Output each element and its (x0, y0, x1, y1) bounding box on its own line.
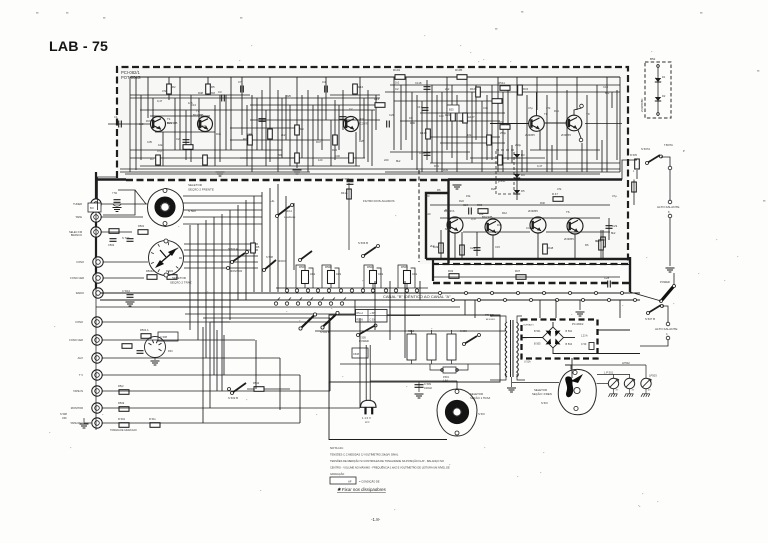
wire lamp drop2 (629, 375, 631, 379)
wire (198, 98, 200, 130)
lamp ground (641, 394, 650, 397)
switch S502B bottom (232, 383, 246, 393)
potentiometer R506 (404, 271, 411, 284)
resistor R49 emitter (439, 243, 444, 253)
pins row main (285, 289, 288, 292)
svg-text:S 504 A: S 504 A (283, 209, 292, 213)
wire (277, 90, 279, 172)
wire (536, 77, 538, 110)
scan tint lower right box (419, 180, 628, 264)
wire lamp (613, 389, 615, 394)
svg-text:POT-004S: POT-004S (121, 75, 141, 80)
wire (330, 120, 332, 166)
wire (230, 77, 232, 150)
wire (511, 145, 513, 163)
wire (325, 77, 327, 120)
pot leads (330, 284, 332, 289)
wire selector to lamp (597, 383, 609, 385)
capacitor C509 (415, 385, 424, 388)
wire bundle (213, 217, 215, 375)
wire (441, 92, 443, 172)
thick bus stub (447, 180, 449, 264)
selector S502 center (574, 387, 580, 393)
capacitor C23 (474, 248, 481, 251)
svg-text:R 504: R 504 (118, 417, 125, 421)
wire lamp (629, 389, 631, 394)
svg-text:10k: 10k (479, 212, 484, 216)
wire top corner (97, 176, 118, 178)
svg-text:2k2: 2k2 (445, 87, 450, 91)
resistor R14 (375, 103, 385, 108)
wire gnd canal (579, 300, 581, 310)
svg-text:R23: R23 (332, 148, 337, 152)
svg-text:C23: C23 (389, 113, 394, 117)
wire bl vert (419, 281, 421, 300)
jack RADIO (93, 288, 103, 298)
svg-text:47k: 47k (546, 106, 551, 110)
wire (334, 100, 336, 160)
wire bundle (197, 224, 199, 340)
svg-text:Lóudness: Lóudness (284, 215, 296, 219)
capacitor C501 (127, 239, 134, 242)
svg-text:220: 220 (425, 194, 430, 198)
wire (546, 231, 610, 233)
jack TAPE IN (92, 386, 102, 396)
jack FONO (93, 257, 103, 267)
wire (619, 77, 621, 172)
wire jack lead (102, 407, 360, 409)
wire out2 (636, 170, 638, 179)
svg-text:2N3055: 2N3055 (525, 133, 535, 137)
resistor R44 emitter (460, 245, 465, 255)
wire bundle (245, 200, 247, 300)
svg-text:R6: R6 (437, 188, 441, 192)
selector S500B tabs (164, 239, 168, 243)
jack AUX (92, 353, 102, 363)
power box outline (329, 315, 500, 382)
scan speckles (36, 12, 38, 14)
svg-text:R5: R5 (256, 245, 260, 249)
svg-text:B.F: B.F (90, 206, 94, 210)
wire (440, 142, 505, 144)
svg-text:C24: C24 (459, 119, 464, 123)
wire (420, 112, 505, 114)
svg-text:MONITOR: MONITOR (230, 269, 242, 273)
svg-text:R49: R49 (410, 121, 415, 125)
wire (430, 204, 610, 206)
svg-text:R105: R105 (455, 68, 463, 72)
capacitor C4 (325, 86, 328, 93)
wire (230, 127, 300, 129)
wire (454, 233, 456, 258)
svg-text:AF: AF (348, 480, 352, 484)
svg-text:SEÇÃO 1 TRAZ: SEÇÃO 1 TRAZ (470, 395, 490, 400)
wire lamp bus2 (597, 374, 630, 376)
pins row two (274, 302, 277, 305)
wire (214, 105, 216, 166)
speaker terminal B1 (666, 322, 670, 326)
svg-text:R31: R31 (146, 119, 151, 123)
svg-text:✱ Fixar nos dissipadores: ✱ Fixar nos dissipadores (337, 487, 387, 492)
thick bus right vert (629, 257, 631, 292)
svg-text:R33: R33 (498, 120, 504, 124)
wire (207, 77, 209, 95)
svg-text:T V: T V (79, 373, 83, 377)
wire (140, 165, 360, 167)
wire S501 up (456, 381, 458, 389)
wire drop (539, 300, 541, 318)
svg-text:680: 680 (445, 227, 450, 231)
svg-text:TAPE: TAPE (75, 215, 82, 219)
svg-text:U 51A: U 51A (524, 361, 531, 364)
svg-text:R40: R40 (540, 201, 545, 205)
wire (130, 94, 250, 96)
box B.F. (88, 203, 101, 212)
wire power up (673, 273, 675, 285)
wire mid (185, 313, 375, 315)
capacitor C508 (158, 332, 178, 341)
power enclosure extension (329, 382, 447, 440)
wire (241, 77, 243, 135)
selector S500 center (161, 203, 169, 211)
wire (185, 110, 187, 160)
wire bl vert (404, 281, 406, 358)
capacitor C2 (183, 140, 190, 143)
resistor R503A (147, 275, 157, 280)
svg-text:SEÇÃO I FREN: SEÇÃO I FREN (532, 391, 552, 396)
svg-text:FONO CER: FONO CER (69, 338, 83, 342)
ground mid (453, 185, 462, 189)
svg-text:CURVAS 5: CURVAS 5 (523, 324, 535, 327)
svg-text:47µ: 47µ (528, 106, 533, 110)
wire drop (474, 300, 476, 318)
svg-text:BC257B: BC257B (358, 122, 369, 126)
PCB inner seam dashed (418, 170, 420, 262)
bridge diode B504 (555, 339, 561, 345)
bridge diode B505 (546, 339, 552, 345)
wire lamp bus (565, 364, 646, 366)
svg-text:1000uF: 1000uF (424, 387, 433, 390)
wire jack lead (102, 339, 255, 341)
svg-text:2N3055: 2N3055 (564, 237, 574, 241)
legend box (330, 477, 356, 484)
svg-text:BC238B: BC238B (193, 113, 204, 117)
wire (307, 90, 309, 172)
resistor R509 (119, 407, 129, 412)
wire fan (183, 216, 262, 218)
svg-text:C7: C7 (238, 80, 242, 84)
svg-text:B 502: B 502 (566, 330, 573, 333)
resistor R43 col (632, 182, 637, 192)
svg-text:R12: R12 (502, 211, 507, 215)
resistor R105 (457, 75, 467, 80)
wire fan (183, 202, 262, 204)
wire drop (389, 300, 391, 315)
wire (240, 157, 300, 159)
wire bl vert (223, 335, 225, 375)
wire (261, 90, 263, 150)
ground cap 750 (113, 208, 122, 212)
svg-text:R 503: R 503 (166, 269, 173, 273)
wire jack lead (102, 357, 280, 359)
wire fuse left (430, 364, 443, 370)
wire (416, 95, 418, 170)
svg-text:R14: R14 (374, 97, 380, 101)
svg-text:LAB - 75: LAB - 75 (49, 39, 108, 55)
switch S506B2 (300, 251, 312, 260)
value labels texture (139, 85, 617, 249)
bridge diamond (543, 327, 564, 348)
svg-text:R109: R109 (470, 87, 477, 91)
svg-text:NOTA 101:: NOTA 101: (330, 446, 344, 450)
resistor R48 emitter (543, 244, 548, 254)
wire (385, 91, 620, 93)
svg-text:R7: R7 (243, 137, 247, 141)
power transistor 2N3055 lower (530, 217, 546, 233)
svg-text:R16: R16 (358, 85, 364, 89)
svg-text:F501: F501 (443, 375, 449, 379)
wire (355, 132, 357, 166)
block R51 table (356, 310, 388, 323)
wire (521, 150, 523, 172)
jack SELEC FM (91, 227, 101, 237)
svg-text:R511: R511 (498, 81, 505, 85)
wire bl vert (374, 281, 376, 330)
wire (400, 120, 500, 122)
svg-text:R41A: R41A (341, 191, 348, 195)
pot staple wire (364, 265, 373, 288)
svg-text:R34: R34 (523, 87, 529, 91)
wire (440, 230, 442, 258)
svg-text:R32: R32 (448, 269, 454, 273)
svg-text:2k2: 2k2 (281, 133, 286, 137)
pot staple wire (296, 265, 305, 288)
svg-text:1,23 A: 1,23 A (581, 335, 588, 338)
wire bundle (269, 188, 271, 292)
switch S504B (323, 314, 338, 328)
svg-text:47k: 47k (162, 89, 167, 93)
wire (440, 217, 600, 219)
selector S500 tabs (163, 189, 167, 193)
connector line 2 (100, 299, 640, 301)
svg-text:MODO: MODO (278, 259, 286, 263)
wire (431, 85, 433, 163)
thick bus low dashed (433, 282, 630, 285)
wire bundle (229, 210, 231, 320)
resistor R41 (347, 189, 352, 199)
resistor R510 (119, 423, 129, 428)
capacitor C17 (422, 108, 429, 111)
lamp (608, 378, 618, 388)
wire (174, 98, 176, 150)
wire (394, 100, 500, 102)
ground DIN (151, 361, 160, 365)
ground TR (507, 388, 516, 392)
svg-text:47µ: 47µ (612, 194, 617, 198)
pot leads (372, 284, 374, 289)
pot leads (304, 284, 306, 289)
wire (152, 98, 154, 120)
resistor R504A (141, 334, 151, 339)
svg-text:C32: C32 (335, 154, 340, 158)
wire (516, 77, 518, 200)
svg-text:10k: 10k (202, 124, 207, 128)
svg-text:P: P (683, 149, 685, 153)
switch S503B (363, 247, 376, 256)
svg-text:R123: R123 (420, 131, 427, 135)
wire (230, 139, 330, 141)
svg-text:R31: R31 (434, 164, 439, 168)
resistor R512 (254, 387, 264, 392)
wire (430, 162, 620, 164)
svg-text:D5: D5 (521, 189, 525, 193)
wire (537, 233, 539, 258)
svg-text:2N3055: 2N3055 (528, 209, 538, 213)
resistor R2 (167, 84, 172, 94)
svg-text:C1B: C1B (419, 151, 425, 155)
capacitor C1B (424, 153, 431, 156)
wire R50 (600, 230, 602, 259)
capacitor C1 input (119, 121, 122, 128)
resistor R45 (601, 237, 606, 247)
resistor R16 (353, 84, 358, 94)
svg-text:0,47: 0,47 (157, 99, 163, 103)
ground preamp (293, 170, 302, 174)
svg-text:R 511: R 511 (149, 417, 156, 421)
resistor R511 (500, 86, 510, 91)
wire (342, 90, 344, 130)
resistor R34 (518, 85, 523, 95)
pin T9 emitter (579, 138, 583, 142)
resistor R5c (119, 390, 129, 395)
selector S500 black ring (157, 199, 172, 214)
wire to ground A (669, 218, 671, 266)
capacitor C6 (340, 117, 347, 120)
svg-text:PC-084/2: PC-084/2 (572, 322, 584, 326)
svg-text:R47: R47 (316, 140, 321, 144)
wire (456, 95, 458, 172)
wire (463, 231, 530, 233)
connector line 1 (100, 292, 640, 294)
resistor R47 (553, 197, 563, 202)
wire (250, 119, 380, 121)
resistor R4 (183, 145, 193, 150)
svg-text:R2: R2 (172, 85, 176, 89)
wire (502, 92, 504, 172)
wire bl vert (389, 281, 391, 340)
wire (317, 95, 319, 140)
wire fan2 (184, 267, 258, 269)
svg-text:-1.8-: -1.8- (371, 517, 381, 522)
svg-text:1k8: 1k8 (139, 122, 144, 126)
capacitor C750 (114, 200, 121, 203)
thick bus top solid (448, 178, 622, 181)
switch S508A (277, 206, 290, 216)
svg-text:D3: D3 (521, 153, 525, 157)
DIN connector (145, 337, 166, 358)
svg-text:S 50I: S 50I (478, 412, 485, 416)
wire (269, 77, 271, 162)
resistor R9 (295, 125, 300, 135)
wire fan2 (184, 255, 258, 257)
switch S504A twin (301, 315, 315, 328)
wire (130, 157, 365, 159)
svg-text:R5(2: R5(2 (118, 384, 124, 388)
resistor R7 (248, 135, 253, 145)
resistor R514 tall (427, 334, 436, 360)
svg-text:R509: R509 (118, 401, 125, 405)
speaker terminal A2 (668, 200, 672, 204)
wire jack lead (101, 231, 132, 233)
switch S502A (232, 253, 245, 262)
electrolytic curve (113, 205, 121, 207)
wire (162, 132, 164, 166)
potentiometer R503 (302, 271, 309, 284)
svg-text:120: 120 (318, 158, 323, 162)
svg-text:TOMADA DE GRAVACAO: TOMADA DE GRAVACAO (110, 429, 137, 432)
wire drop (464, 300, 466, 315)
wire (147, 77, 149, 118)
wire plug (365, 345, 367, 400)
svg-text:2k2: 2k2 (430, 244, 435, 248)
capacitor C50 rect (589, 343, 594, 350)
wire (426, 80, 428, 160)
wire bl horiz (160, 306, 460, 308)
svg-text:SELETOR: SELETOR (188, 183, 203, 187)
wire jack lead (103, 292, 125, 294)
svg-text:S 508: S 508 (60, 412, 67, 416)
svg-text:preto: preto (498, 179, 505, 183)
svg-text:120: 120 (156, 126, 161, 130)
transistor T1 BC238B (151, 117, 166, 132)
pot staple wire (322, 265, 331, 288)
wire (375, 95, 377, 130)
pin T8 collector (580, 104, 584, 108)
svg-text:LP502: LP502 (622, 361, 630, 365)
diode D3 (514, 154, 520, 158)
svg-text:C23: C23 (470, 246, 476, 250)
wire jack1 route (103, 190, 135, 215)
wire (140, 109, 375, 111)
svg-text:FONO: FONO (77, 260, 85, 264)
wire (125, 173, 600, 175)
svg-text:R24: R24 (445, 113, 451, 117)
resistor R535 output (635, 159, 640, 169)
connector pins row (439, 292, 442, 295)
svg-text:C2: C2 (395, 87, 399, 91)
jack FONO (92, 317, 102, 327)
driver transistor BC237A (447, 217, 463, 233)
indicator wire (657, 64, 659, 116)
fuse F501 (443, 367, 456, 373)
wire DIN gnd (154, 358, 156, 361)
wire rail drop left (129, 77, 131, 172)
resistor R33 (500, 125, 510, 130)
wire gnd taperec (84, 418, 91, 423)
wire (475, 85, 477, 140)
svg-text:FILTRO DOS AGUDOS: FILTRO DOS AGUDOS (363, 199, 394, 203)
noise specks (49, 35, 738, 510)
svg-text:S 500: S 500 (188, 209, 196, 213)
svg-text:T9: T9 (586, 112, 590, 116)
resistor R5 (206, 84, 211, 94)
thick bus stub2 (426, 193, 449, 259)
transistor T8 2N3055 (529, 116, 545, 132)
wire (155, 131, 215, 133)
wire bundle (261, 192, 263, 292)
wire (596, 85, 598, 160)
svg-text:SELETOR: SELETOR (172, 276, 187, 280)
